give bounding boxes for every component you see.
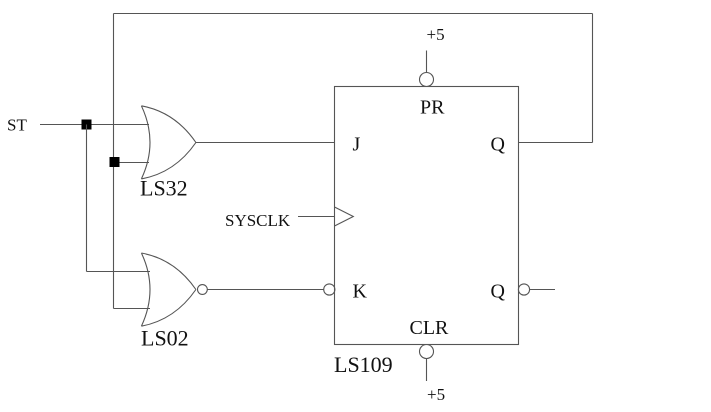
wire feedback left vertical	[113, 14, 115, 309]
wire SYSCLK	[298, 216, 335, 218]
nor-gate output bubble	[198, 285, 208, 295]
wire feedback branch to OR input 2	[114, 162, 150, 164]
clock triangle	[335, 207, 354, 226]
wire OR output to J	[196, 142, 335, 144]
wire ST input	[40, 124, 149, 126]
wire NOR output to K	[207, 289, 323, 291]
wire Q output to feedback	[519, 142, 593, 144]
pin K input bubble	[324, 284, 335, 295]
wire feedback top horizontal	[114, 13, 593, 15]
svg-text:LS32: LS32	[140, 176, 188, 201]
pin Qbar output bubble	[518, 284, 529, 295]
svg-text:LS02: LS02	[141, 326, 189, 351]
svg-text:J: J	[353, 134, 361, 156]
or-gate LS32	[141, 106, 196, 179]
wire ST vertical branch	[86, 125, 88, 272]
svg-text:LS109: LS109	[334, 352, 393, 377]
wire PR stub	[426, 51, 428, 73]
wire CLR stub	[426, 359, 428, 382]
svg-text:SYSCLK: SYSCLK	[225, 211, 291, 230]
pin CLR bubble	[420, 345, 434, 359]
svg-text:ST: ST	[7, 116, 27, 135]
node junction ST	[82, 120, 92, 130]
svg-text:K: K	[353, 281, 368, 303]
wire feedback right vertical	[592, 14, 594, 143]
wire NOR input 2	[114, 308, 151, 310]
svg-text:CLR: CLR	[410, 317, 450, 339]
svg-text:Q: Q	[491, 134, 506, 156]
svg-text:Q: Q	[491, 281, 506, 303]
wire NOR input 1	[87, 271, 151, 273]
wire Qbar output	[530, 289, 555, 291]
svg-text:+5: +5	[427, 385, 445, 404]
svg-text:+5: +5	[427, 25, 445, 44]
nor-gate LS02	[141, 253, 196, 326]
node junction feedback	[110, 157, 120, 167]
svg-text:PR: PR	[420, 97, 445, 119]
pin PR bubble	[420, 73, 434, 87]
flip-flop LS109 body	[335, 87, 519, 345]
